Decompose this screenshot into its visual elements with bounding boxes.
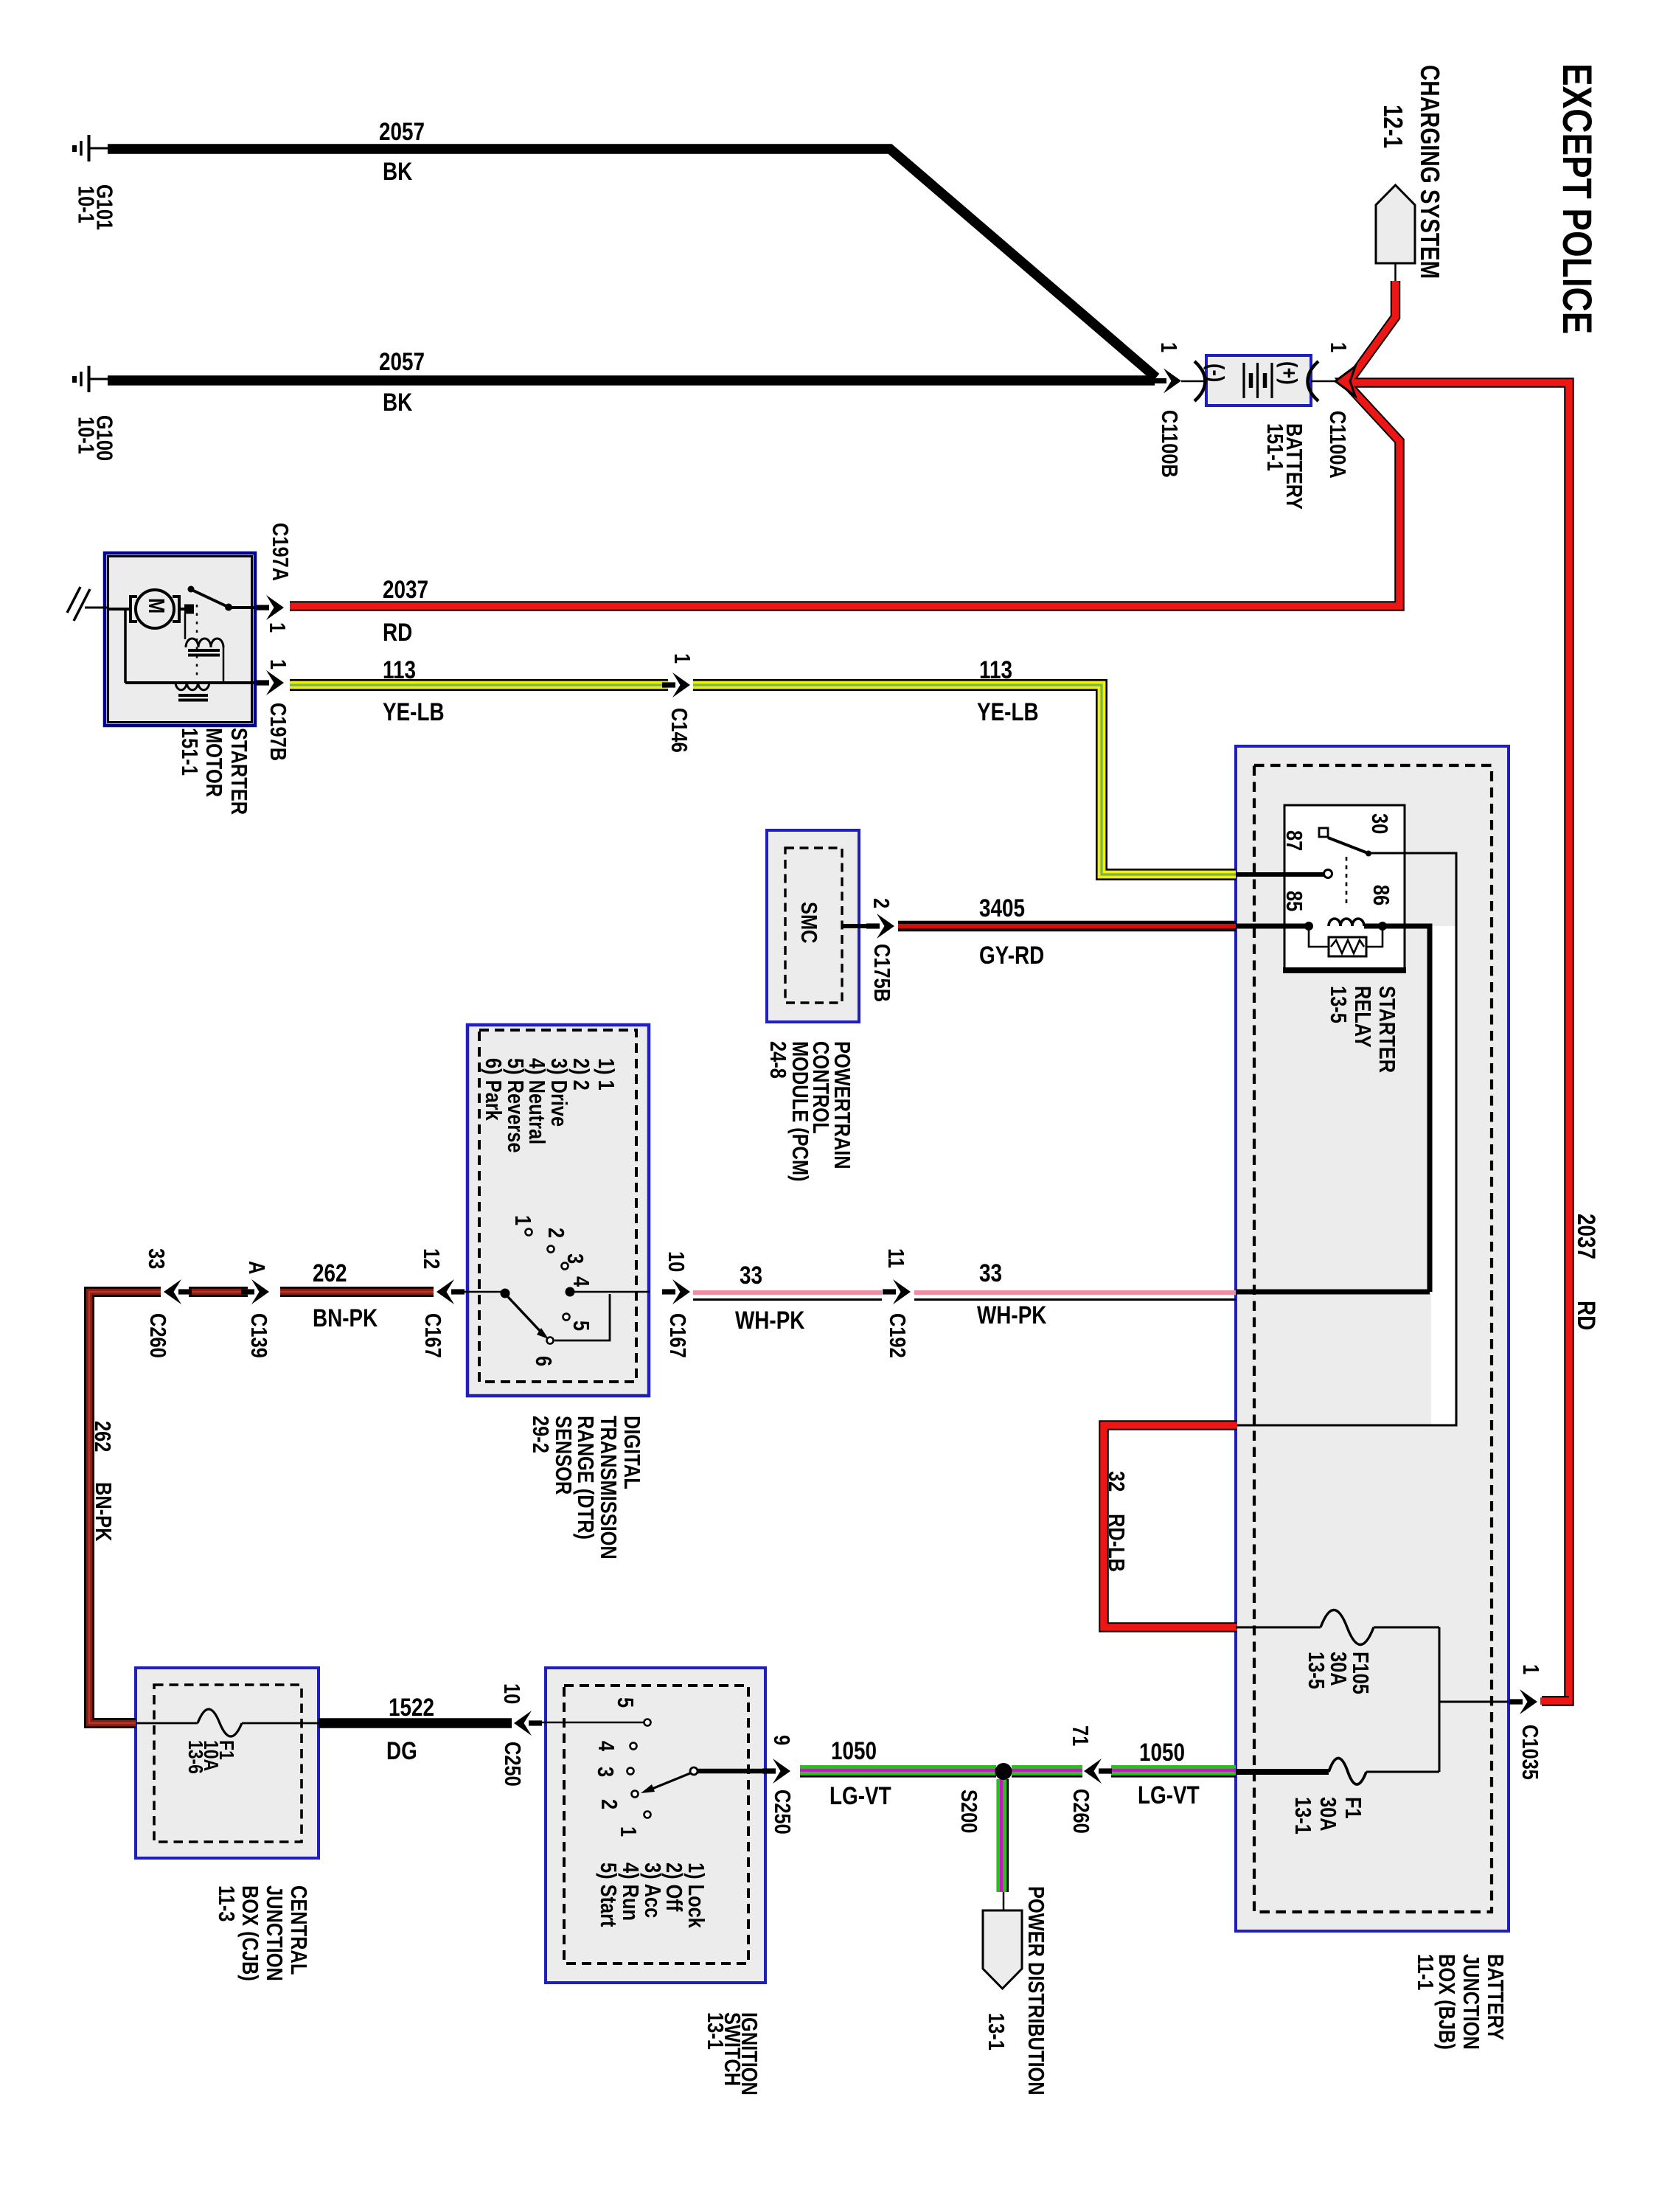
svg-text:11: 11 <box>883 1248 908 1268</box>
svg-text:EXCEPT POLICE: EXCEPT POLICE <box>1554 63 1600 334</box>
svg-text:C197B: C197B <box>265 703 291 761</box>
svg-text:C250: C250 <box>499 1742 525 1787</box>
svg-text:2057: 2057 <box>379 117 425 145</box>
svg-text:SENSOR: SENSOR <box>550 1416 576 1495</box>
svg-text:13-5: 13-5 <box>1325 986 1351 1023</box>
svg-text:1: 1 <box>264 622 290 633</box>
svg-text:CHARGING SYSTEM: CHARGING SYSTEM <box>1415 65 1444 279</box>
svg-text:WH-PK: WH-PK <box>735 1306 805 1334</box>
svg-text:5: 5 <box>612 1697 638 1708</box>
svg-text:1522: 1522 <box>389 1693 434 1721</box>
svg-text:JUNCTION: JUNCTION <box>1458 1954 1484 2050</box>
svg-text:3: 3 <box>592 1767 618 1777</box>
svg-text:C146: C146 <box>666 708 692 753</box>
svg-text:JUNCTION: JUNCTION <box>261 1885 287 1981</box>
svg-text:STARTER: STARTER <box>226 728 251 815</box>
svg-text:12: 12 <box>418 1248 444 1269</box>
svg-text:2: 2 <box>543 1228 568 1238</box>
svg-text:1050: 1050 <box>831 1736 877 1764</box>
svg-text:113: 113 <box>383 655 416 684</box>
svg-text:(+): (+) <box>1276 361 1301 385</box>
svg-text:RD: RD <box>383 618 412 646</box>
svg-text:F1: F1 <box>1340 1797 1366 1819</box>
svg-text:2: 2 <box>868 898 894 908</box>
svg-text:32: 32 <box>1103 1471 1129 1492</box>
svg-text:C1100B: C1100B <box>1156 410 1182 478</box>
svg-text:SMC: SMC <box>796 902 821 943</box>
svg-text:1: 1 <box>1517 1664 1543 1674</box>
svg-text:5) Start: 5) Start <box>595 1863 621 1927</box>
svg-text:1050: 1050 <box>1139 1738 1185 1766</box>
svg-text:M: M <box>143 598 169 613</box>
svg-text:S200: S200 <box>956 1790 981 1833</box>
svg-text:6: 6 <box>530 1356 556 1366</box>
svg-text:113: 113 <box>979 655 1012 684</box>
svg-text:RD: RD <box>1572 1301 1600 1330</box>
svg-text:3405: 3405 <box>979 894 1025 922</box>
svg-text:86: 86 <box>1368 885 1394 905</box>
svg-text:2: 2 <box>596 1799 622 1809</box>
svg-text:A: A <box>243 1261 269 1274</box>
svg-text:DG: DG <box>386 1736 417 1764</box>
svg-text:33: 33 <box>979 1259 1002 1287</box>
svg-text:C1100A: C1100A <box>1324 411 1350 479</box>
svg-text:1: 1 <box>265 659 291 669</box>
svg-text:RD-LB: RD-LB <box>1103 1514 1129 1572</box>
svg-text:DIGITAL: DIGITAL <box>619 1416 644 1489</box>
svg-text:RELAY: RELAY <box>1349 986 1375 1048</box>
svg-text:4: 4 <box>568 1276 594 1287</box>
svg-text:10-1: 10-1 <box>73 186 99 223</box>
svg-text:29-2: 29-2 <box>527 1416 553 1453</box>
svg-text:71: 71 <box>1067 1725 1093 1746</box>
svg-text:1: 1 <box>1155 342 1181 352</box>
svg-text:10: 10 <box>663 1251 689 1272</box>
svg-text:151-1: 151-1 <box>176 728 202 776</box>
svg-text:YE-LB: YE-LB <box>383 698 445 726</box>
svg-text:13-5: 13-5 <box>1303 1652 1329 1689</box>
svg-text:TRANSMISSION: TRANSMISSION <box>595 1416 621 1559</box>
svg-text:13-1: 13-1 <box>702 2012 728 2050</box>
svg-text:CENTRAL: CENTRAL <box>285 1885 311 1975</box>
svg-text:LG-VT: LG-VT <box>1138 1781 1200 1809</box>
svg-text:BATTERY: BATTERY <box>1482 1954 1508 2040</box>
svg-text:MOTOR: MOTOR <box>201 728 226 797</box>
svg-text:1: 1 <box>615 1826 641 1837</box>
svg-text:5: 5 <box>568 1321 594 1331</box>
svg-text:6) Park: 6) Park <box>480 1058 506 1121</box>
svg-text:85: 85 <box>1281 891 1307 911</box>
svg-text:1: 1 <box>669 653 695 664</box>
svg-text:C139: C139 <box>246 1313 271 1358</box>
svg-text:12-1: 12-1 <box>1378 105 1408 148</box>
svg-text:BN-PK: BN-PK <box>313 1304 378 1332</box>
svg-text:(-): (-) <box>1203 364 1228 382</box>
svg-text:262: 262 <box>89 1421 115 1452</box>
svg-text:YE-LB: YE-LB <box>977 698 1039 726</box>
svg-text:2037: 2037 <box>1572 1214 1600 1259</box>
svg-text:11-3: 11-3 <box>213 1885 239 1921</box>
svg-text:10-1: 10-1 <box>73 417 99 454</box>
svg-text:BOX (CJB): BOX (CJB) <box>237 1885 262 1981</box>
svg-text:4: 4 <box>593 1741 619 1751</box>
svg-text:C260: C260 <box>145 1313 170 1358</box>
svg-text:262: 262 <box>313 1259 347 1287</box>
svg-text:87: 87 <box>1281 830 1307 851</box>
svg-text:C175B: C175B <box>869 944 894 1002</box>
svg-text:C192: C192 <box>884 1313 910 1358</box>
svg-text:C260: C260 <box>1068 1789 1093 1834</box>
svg-text:1) 1: 1) 1 <box>593 1058 619 1091</box>
svg-text:30: 30 <box>1366 813 1392 834</box>
svg-text:BN-PK: BN-PK <box>90 1482 116 1542</box>
svg-text:C1035: C1035 <box>1517 1725 1543 1780</box>
svg-text:BK: BK <box>383 157 413 185</box>
svg-text:C167: C167 <box>664 1313 690 1358</box>
svg-text:13-1: 13-1 <box>1290 1797 1315 1834</box>
svg-text:10: 10 <box>498 1683 524 1704</box>
svg-text:C197A: C197A <box>267 523 293 581</box>
svg-text:1: 1 <box>1325 342 1351 352</box>
svg-text:13-6: 13-6 <box>184 1740 206 1774</box>
svg-text:2037: 2037 <box>383 575 428 603</box>
svg-text:STARTER: STARTER <box>1374 986 1399 1073</box>
svg-text:30A: 30A <box>1315 1797 1340 1832</box>
svg-text:3: 3 <box>562 1253 588 1264</box>
svg-text:9: 9 <box>768 1735 794 1745</box>
svg-text:13-1: 13-1 <box>983 2013 1009 2051</box>
svg-text:11-1: 11-1 <box>1412 1954 1438 1990</box>
svg-text:C250: C250 <box>769 1790 795 1834</box>
svg-text:BK: BK <box>383 388 413 416</box>
svg-text:WH-PK: WH-PK <box>977 1301 1047 1329</box>
svg-text:151-1: 151-1 <box>1262 423 1287 471</box>
svg-text:1: 1 <box>509 1215 535 1225</box>
svg-text:33: 33 <box>740 1261 762 1289</box>
svg-text:2057: 2057 <box>379 347 425 375</box>
svg-text:POWER DISTRIBUTION: POWER DISTRIBUTION <box>1023 1886 1048 2096</box>
svg-text:C167: C167 <box>420 1313 445 1358</box>
svg-text:24-8: 24-8 <box>765 1041 790 1079</box>
svg-text:GY-RD: GY-RD <box>979 941 1044 969</box>
svg-text:33: 33 <box>143 1248 169 1269</box>
svg-text:LG-VT: LG-VT <box>829 1781 891 1809</box>
